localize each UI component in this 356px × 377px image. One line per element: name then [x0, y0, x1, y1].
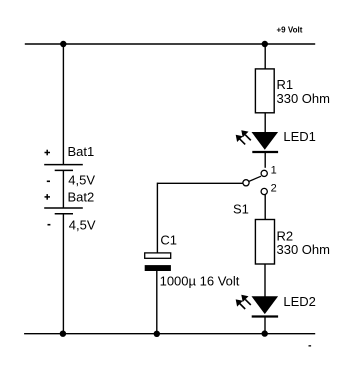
svg-text:C1: C1: [160, 233, 177, 248]
LED LED1: [252, 132, 279, 152]
LED LED2: [252, 296, 279, 316]
wire LED1 to switch pole 1: [264, 152, 266, 168]
LED1 emission arrow upper: [241, 130, 251, 140]
wire left rail to Bat1: [62, 44, 64, 165]
node junction top-left: [60, 41, 66, 47]
switch S1 common contact: [243, 180, 249, 186]
wire R2 to LED2: [264, 264, 266, 297]
svg-text:330 Ohm: 330 Ohm: [277, 242, 330, 257]
svg-text:Bat1: Bat1: [68, 144, 95, 159]
switch S1 contact 2: [261, 188, 267, 194]
wire switch common to capacitor branch (horizontal): [157, 182, 243, 184]
label Bat1 minus sign: [47, 180, 50, 182]
battery Bat2: [44, 208, 83, 214]
label Bat2 minus sign: [48, 224, 51, 226]
svg-text:1000µ 16 Volt: 1000µ 16 Volt: [160, 274, 240, 289]
resistor R2: [255, 220, 274, 265]
LED2 emission arrow upper: [241, 295, 251, 305]
resistor R1: [255, 69, 274, 113]
LED1 emission arrow lower: [236, 135, 246, 145]
wire R1 to LED1: [264, 113, 266, 133]
svg-text:4,5V: 4,5V: [69, 217, 96, 232]
switch S1 contact 1: [261, 170, 267, 176]
label Bat2 plus sign: [45, 194, 51, 200]
svg-text:LED2: LED2: [283, 294, 316, 309]
wire switch pole 2 to R2: [264, 195, 266, 220]
stray dash mark bottom right: [309, 345, 312, 346]
capacitor C1: [145, 253, 171, 271]
svg-text:4,5V: 4,5V: [68, 172, 95, 187]
wire capacitor to bottom rail: [156, 271, 158, 334]
wire top rail (+9V): [25, 43, 315, 45]
svg-text:S1: S1: [233, 201, 249, 216]
wire top rail to R1: [264, 44, 266, 69]
svg-text:+9 Volt: +9 Volt: [277, 26, 303, 35]
svg-text:Bat2: Bat2: [68, 189, 95, 204]
svg-text:330 Ohm: 330 Ohm: [277, 91, 330, 106]
wire Bat2 to bottom rail: [62, 214, 64, 334]
LED2 emission arrow lower: [236, 299, 246, 309]
wire capacitor branch vertical: [156, 183, 158, 253]
label Bat1 plus sign: [45, 150, 51, 156]
switch S1 lever: [249, 176, 261, 181]
svg-text:LED1: LED1: [283, 129, 316, 144]
battery Bat1: [44, 165, 83, 171]
wire LED2 to bottom rail: [264, 317, 266, 334]
wire Bat1 to Bat2: [62, 170, 64, 208]
node junction bottom-left: [60, 331, 66, 337]
wire bottom rail (ground return): [24, 333, 315, 335]
svg-text:R1: R1: [277, 77, 294, 92]
node junction bottom-LED2: [262, 330, 268, 336]
svg-text:1: 1: [271, 164, 277, 176]
svg-text:2: 2: [271, 183, 277, 195]
node junction top-right: [262, 41, 268, 47]
node junction bottom-capacitor: [154, 331, 160, 337]
